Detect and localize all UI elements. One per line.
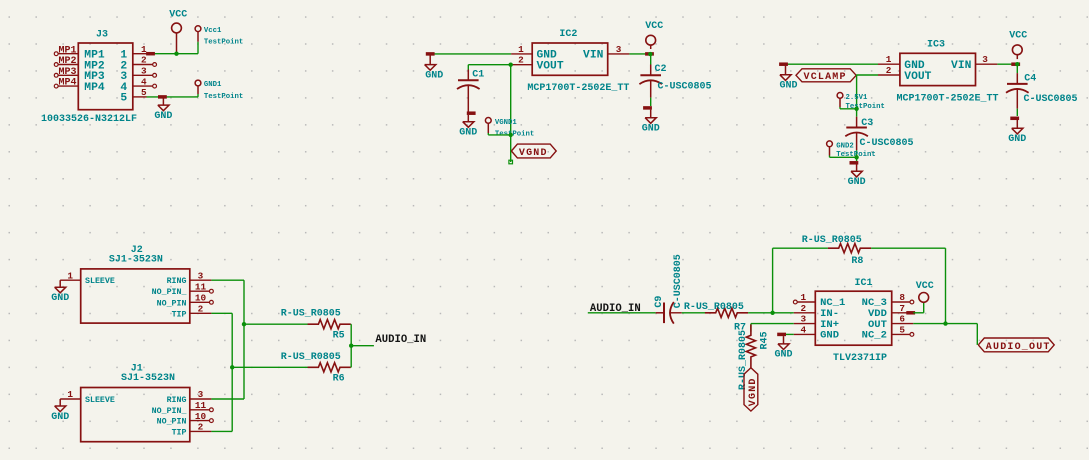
IC3 pin names [904, 60, 971, 83]
svg-text:GND: GND [779, 81, 797, 92]
ERC marker at IC3 VCC node [1011, 62, 1020, 65]
resistor R7 [705, 308, 748, 317]
J1 reference label [131, 364, 143, 375]
wire VCLAMP to IC3 pin 2 [856, 74, 878, 76]
local label AUDIO_IN (left) [375, 334, 426, 346]
wire R5-R6 right vertical [350, 324, 352, 367]
svg-text:C4: C4 [1024, 74, 1036, 85]
svg-text:C-USC0805: C-USC0805 [673, 254, 684, 308]
ERC marker at IC2 GND wire [426, 52, 435, 56]
IC1 pin 2 stub [794, 312, 816, 314]
ERC marker at IC2 VCC node [645, 52, 654, 56]
svg-text:C9: C9 [654, 296, 665, 308]
IC1 pin 1 stub (unconnected) [793, 300, 815, 304]
wire feedback top left [773, 247, 828, 249]
C3 reference label [861, 118, 873, 129]
svg-text:NC_2: NC_2 [862, 330, 887, 342]
wire GND to IC3 pin 1 [782, 63, 879, 65]
svg-text:IC1: IC1 [855, 278, 873, 289]
ERC marker at IC3 GND wire [779, 62, 788, 65]
junction at GND2 testpoint [854, 155, 858, 159]
wire to R5 [244, 323, 309, 325]
svg-text:IC2: IC2 [559, 29, 577, 40]
wire GND1 testpoint drop [195, 94, 199, 97]
svg-text:10: 10 [195, 293, 207, 304]
svg-text:MCP1700T-2502E_TT: MCP1700T-2502E_TT [527, 83, 629, 94]
wire IC3 pin3 to VCC [997, 63, 1017, 65]
C5 reference label [654, 296, 665, 308]
wire IC1 pin4 to GND [782, 333, 794, 335]
J3 pin 1 name+number [120, 44, 147, 62]
J3 pin 2 stub (unconnected) [133, 63, 157, 67]
svg-text:Vcc1: Vcc1 [204, 27, 222, 35]
junction at 2.5V1 testpoint [854, 107, 858, 111]
wire IN+ to R45 [751, 323, 794, 325]
wire feedback left vertical [772, 248, 774, 313]
R6 value label [281, 352, 341, 363]
capacitor C2 [639, 54, 662, 106]
svg-text:VOUT: VOUT [537, 61, 564, 73]
IC2 reference label [559, 29, 577, 40]
J3 pin MP4 (left) [54, 78, 105, 94]
IC1 left pin number 2 [800, 303, 806, 314]
ground at IC1 pin 4 [774, 336, 792, 361]
wire GND2 testpoint to node [830, 156, 857, 158]
svg-text:SLEEVE: SLEEVE [85, 396, 115, 405]
ground at J1 sleeve [51, 399, 69, 423]
wire J1 TIP right [211, 430, 232, 432]
svg-text:GND: GND [51, 293, 69, 304]
junction at IC3 VCC node [1015, 62, 1019, 66]
IC1 pin name NC_1 [820, 297, 845, 309]
ground at IC2 input [425, 55, 444, 81]
svg-text:MP4: MP4 [84, 82, 105, 94]
C4 reference label [1024, 74, 1036, 85]
IC1 pin name NC_2 [862, 330, 887, 342]
wire to R6 [232, 366, 309, 368]
ERC marker at IC1 pin 7 [906, 311, 915, 315]
IC2 value label [527, 83, 629, 94]
junction at IC2 pin 2 [509, 62, 513, 66]
C3 value label [860, 138, 914, 149]
svg-text:VCC: VCC [645, 21, 663, 32]
wire IC1 pin7 to VCC [913, 302, 923, 312]
wire 2.5V1 testpoint to node [840, 107, 857, 109]
power flag VCC at IC1 [916, 281, 934, 303]
wire J1 RING right [211, 398, 244, 400]
R8 value label [802, 235, 862, 246]
svg-text:MP1: MP1 [59, 45, 77, 56]
svg-text:R-US_R0805: R-US_R0805 [684, 302, 744, 313]
J3 pin 2 name+number [120, 55, 147, 73]
wire Vcc1 testpoint drop [195, 42, 199, 54]
power flag VCC at J3 [169, 10, 187, 54]
wire C5 to R7 [682, 312, 708, 314]
IC3 value label [897, 93, 999, 104]
ERC marker at C1 bottom [467, 111, 476, 115]
svg-text:2: 2 [198, 304, 204, 315]
svg-text:AUDIO_OUT: AUDIO_OUT [986, 342, 1051, 353]
power flag VCC at IC3 [1009, 30, 1027, 59]
ground below C4 [1008, 120, 1026, 145]
svg-text:VIN: VIN [951, 60, 972, 72]
svg-text:R6: R6 [333, 374, 345, 385]
op-amp IC1 body [815, 291, 891, 345]
svg-text:R5: R5 [333, 331, 345, 342]
svg-text:11: 11 [195, 281, 207, 292]
ground below C1 [459, 115, 477, 139]
J3 pin MP2 (left) [54, 56, 105, 72]
wire C1 to IC2 pin 2 [468, 64, 512, 66]
svg-text:VGND: VGND [519, 148, 548, 159]
svg-text:MP3: MP3 [59, 67, 77, 78]
R45 value label [738, 330, 749, 390]
svg-text:AUDIO_IN: AUDIO_IN [375, 334, 426, 346]
testpoint GND1 [195, 80, 243, 101]
svg-text:10: 10 [195, 411, 207, 422]
audio jack J1 body [81, 388, 190, 442]
J2 pin 10 NO_PIN [157, 293, 214, 309]
ERC marker at J3 pin 5 [158, 95, 167, 99]
wire feedback top right [871, 247, 945, 249]
testpoint VGND1 [485, 118, 534, 139]
wire AUDIO_IN stub [351, 345, 374, 347]
svg-text:TestPoint: TestPoint [204, 39, 243, 47]
svg-text:VCC: VCC [916, 281, 934, 292]
J3 pin MP1 (left) [54, 45, 105, 61]
IC1 value label [833, 353, 887, 364]
IC1 left pin number 3 [800, 314, 806, 325]
svg-text:NO_PIN_: NO_PIN_ [152, 407, 187, 416]
IC1 reference label [855, 278, 873, 289]
svg-text:GND2: GND2 [836, 143, 854, 151]
J1 pin 3 RING [167, 389, 212, 405]
svg-text:TestPoint: TestPoint [204, 93, 243, 101]
J2 pin 1 SLEEVE [60, 270, 115, 286]
local label AUDIO_IN (right) [590, 303, 641, 315]
wire VGND1 testpoint to VGND net [488, 133, 510, 135]
C4 value label [1024, 94, 1078, 105]
svg-text:R-US_R0805: R-US_R0805 [281, 309, 341, 320]
svg-text:5: 5 [120, 93, 127, 105]
svg-text:NO_PIN_: NO_PIN_ [152, 288, 187, 297]
svg-text:3: 3 [198, 270, 204, 281]
svg-text:J3: J3 [96, 29, 108, 40]
svg-text:NO_PIN: NO_PIN [157, 418, 187, 427]
J3 pin 5 stub [133, 96, 147, 98]
connector J3 body [78, 43, 133, 110]
J3 pin 4 stub (unconnected) [133, 84, 157, 88]
ERC marker at IC1 pin 4 [777, 333, 786, 337]
resistor R5 [308, 320, 351, 329]
IC1 pin 4 stub [794, 333, 816, 335]
junction at IC2 VCC node [648, 52, 652, 56]
svg-text:C-USC0805: C-USC0805 [658, 81, 712, 92]
dangling wire end square [509, 160, 513, 164]
IC1 right pin number 8 [899, 292, 905, 303]
IC2 pin 3 stub [608, 53, 630, 55]
svg-text:R-US_R0805: R-US_R0805 [802, 235, 862, 246]
global label VGND [511, 144, 556, 159]
capacitor C5 (series) [656, 302, 682, 324]
J2 pin 2 TIP [172, 304, 212, 320]
ground at J2 sleeve [51, 280, 69, 304]
testpoint 2.5V1 [837, 93, 885, 112]
svg-text:C3: C3 [861, 118, 873, 129]
svg-text:VGND1: VGND1 [495, 119, 518, 127]
ground below C3 [848, 165, 866, 189]
svg-text:GND: GND [848, 177, 866, 188]
ground at J3 pin 5 [154, 97, 172, 122]
IC3 pin numbers [886, 54, 989, 76]
svg-text:C1: C1 [472, 69, 484, 80]
R45 reference label [760, 331, 771, 349]
resistor R8 [828, 244, 871, 253]
IC1 right pin number 7 [899, 303, 905, 314]
IC1 left pin number 1 [800, 292, 806, 303]
J2 pin 11 NO_PIN_ [152, 281, 214, 297]
svg-text:R8: R8 [851, 256, 863, 267]
regulator IC3 body [900, 53, 976, 85]
wire J3 pin1 to Vcc1 testpoint [148, 53, 195, 55]
svg-text:C-USC0805: C-USC0805 [1024, 94, 1078, 105]
capacitor C1 [457, 65, 480, 112]
svg-text:R45: R45 [760, 331, 771, 349]
wire IC2 pin3 to VCC [629, 53, 650, 55]
capacitor C4 [1006, 64, 1029, 116]
IC1 left pin number 4 [800, 324, 806, 335]
wire feedback right vertical [945, 248, 947, 323]
R5 value label [281, 309, 341, 320]
IC1 pin 3 stub [794, 323, 816, 325]
resistor R6 [308, 363, 351, 372]
J3 pin 1 stub [133, 53, 147, 55]
IC1 pin name IN+ [820, 319, 839, 331]
ERC marker at J3 pin 1 [146, 52, 155, 56]
testpoint GND2 [827, 141, 876, 159]
global label VGND (vertical) [744, 368, 759, 411]
wire J2 TIP right [211, 312, 232, 314]
J1 value label [121, 373, 175, 384]
svg-text:TIP: TIP [172, 310, 187, 319]
C2 value label [658, 81, 712, 92]
svg-text:VCLAMP: VCLAMP [804, 72, 847, 83]
connector J3 value label [41, 114, 137, 125]
svg-text:VGND: VGND [748, 377, 759, 406]
wire C3 to GND [856, 150, 858, 161]
svg-text:TLV2371IP: TLV2371IP [833, 353, 887, 364]
IC1 pin 8 stub (unconnected) [892, 300, 914, 304]
R7 value label [684, 302, 744, 313]
global label AUDIO_OUT [978, 338, 1054, 353]
IC1 pin name OUT [868, 319, 887, 331]
IC3 pin 1 stub [878, 63, 900, 65]
wire VCLAMP node down to C3 [856, 75, 858, 117]
audio jack J2 body [81, 269, 190, 323]
wire RING vertical [243, 280, 245, 399]
junction RING/R5 [242, 322, 246, 326]
J3 pin 3 name+number [120, 66, 147, 84]
svg-text:SJ1-3523N: SJ1-3523N [109, 254, 163, 265]
ERC marker at C4 bottom [1010, 117, 1019, 121]
R6 reference label [333, 374, 345, 385]
J1 pin 10 NO_PIN [157, 411, 214, 427]
svg-text:GND: GND [51, 412, 69, 423]
svg-text:1: 1 [67, 270, 73, 281]
svg-text:10033526-N3212LF: 10033526-N3212LF [41, 114, 137, 125]
svg-text:GND: GND [820, 330, 839, 342]
C2 reference label [655, 64, 667, 75]
svg-text:11: 11 [195, 400, 207, 411]
testpoint Vcc1 [195, 26, 243, 47]
svg-text:C2: C2 [655, 64, 667, 75]
IC1 right pin number 6 [899, 314, 905, 325]
svg-text:MCP1700T-2502E_TT: MCP1700T-2502E_TT [897, 93, 999, 104]
junction OUT node [943, 321, 947, 325]
R7 reference label [734, 322, 746, 333]
IC2 pin 1 stub [511, 53, 532, 55]
wire GND to IC2 pin 1 [430, 53, 511, 55]
svg-text:RING: RING [167, 277, 187, 286]
junction AUDIO_IN stub [349, 344, 353, 348]
ERC marker at C2 bottom [643, 106, 652, 110]
R5 reference label [333, 331, 345, 342]
svg-text:GND: GND [1008, 134, 1026, 145]
J1 pin 1 SLEEVE [60, 389, 115, 405]
resistor R45 [746, 325, 755, 368]
IC1 pin 7 stub [892, 312, 914, 314]
svg-text:TIP: TIP [172, 428, 187, 437]
svg-text:1: 1 [67, 389, 73, 400]
IC2 pin numbers [518, 44, 622, 66]
C5 value label [673, 254, 684, 308]
IC1 pin name NC_3 [862, 297, 887, 309]
J3 pin 5 name+number [120, 87, 147, 105]
J3 pin 4 name+number [120, 76, 147, 94]
IC2 pin 2 stub [512, 64, 532, 66]
ground below C2 [642, 110, 660, 135]
J2 value label [109, 254, 163, 265]
connector J3 reference label [96, 29, 108, 40]
ground at IC3 input [779, 66, 797, 92]
IC1 pin name IN- [820, 308, 839, 320]
wire VGND vertical [510, 65, 512, 162]
J3 pin MP3 (left) [54, 67, 105, 83]
svg-text:VIN: VIN [583, 50, 604, 62]
junction IN- node [770, 311, 774, 315]
svg-text:VOUT: VOUT [904, 71, 931, 83]
svg-text:GND: GND [425, 70, 443, 81]
svg-text:2: 2 [198, 422, 204, 433]
svg-text:GND: GND [154, 111, 172, 122]
regulator IC2 body [532, 43, 608, 75]
svg-text:GND: GND [642, 124, 660, 135]
svg-text:3: 3 [198, 389, 204, 400]
global label VCLAMP [796, 69, 856, 83]
svg-text:SLEEVE: SLEEVE [85, 277, 115, 286]
wire TIP vertical [231, 313, 233, 431]
svg-text:VCC: VCC [1009, 30, 1027, 41]
IC3 pin 3 stub [976, 63, 998, 65]
svg-text:GND: GND [459, 128, 477, 139]
junction TIP/R6 [230, 365, 234, 369]
junction at VCC/J3 pin1 [174, 52, 178, 56]
wire IC1 OUT to AUDIO_OUT [913, 324, 977, 345]
IC3 reference label [927, 39, 945, 50]
J1 pin 2 TIP [172, 422, 212, 438]
IC2 pin names [537, 50, 604, 73]
ERC marker at C3 bottom [850, 161, 859, 165]
svg-text:MP4: MP4 [59, 78, 77, 89]
IC1 right pin number 5 [899, 324, 905, 335]
R8 reference label [851, 256, 863, 267]
C1 reference label [472, 69, 484, 80]
svg-text:C-USC0805: C-USC0805 [860, 138, 914, 149]
J2 pin 3 RING [167, 270, 212, 286]
wire J3 pin5 to GND1 testpoint [147, 96, 195, 98]
svg-text:TestPoint: TestPoint [846, 103, 885, 111]
wire IN+ corner down [750, 324, 752, 332]
svg-text:VCC: VCC [169, 10, 187, 21]
svg-text:GND: GND [774, 350, 792, 361]
IC1 pin name VDD [868, 308, 887, 320]
wire J2 RING right [211, 279, 244, 281]
svg-text:RING: RING [167, 396, 187, 405]
svg-text:SJ1-3523N: SJ1-3523N [121, 373, 175, 384]
J3 pin 3 stub (unconnected) [133, 73, 157, 77]
IC1 pin 6 stub [892, 323, 914, 325]
svg-text:MP2: MP2 [59, 56, 77, 67]
J2 reference label [131, 245, 143, 256]
svg-text:IC3: IC3 [927, 39, 945, 50]
svg-text:GND1: GND1 [204, 81, 222, 89]
IC1 pin name GND [820, 330, 839, 342]
svg-text:R-US_R0805: R-US_R0805 [281, 352, 341, 363]
svg-text:2.5V1: 2.5V1 [846, 94, 869, 102]
J1 pin 11 NO_PIN_ [152, 400, 214, 416]
wire R7 to IN- node [748, 312, 794, 314]
IC1 pin 5 stub (unconnected) [892, 333, 914, 337]
power flag VCC at IC2 [645, 21, 663, 49]
wire AUDIO_IN to C5 [588, 312, 656, 314]
IC3 pin 2 stub [878, 74, 900, 76]
svg-text:NO_PIN: NO_PIN [157, 299, 187, 308]
junction at VGND1 testpoint [509, 133, 513, 137]
capacitor C3 [845, 117, 868, 151]
